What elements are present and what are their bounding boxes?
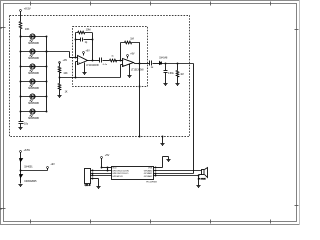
svg-text:+9V: +9V (130, 53, 135, 56)
capacitor C3 1u (149, 61, 151, 66)
frame tick top x=90 (90, 2, 92, 6)
svg-text:MRD500B: MRD500B (28, 88, 39, 90)
ground (cap 0.68u) (163, 84, 167, 86)
inner dashed box (amplifier block) (73, 27, 148, 87)
diode D9 arrow (20, 175, 23, 178)
frame tick top x=150 (150, 2, 152, 6)
link VDD to pin2 wire (107, 168, 109, 171)
resistor 1K bias (58, 84, 61, 90)
svg-text:PIC12F683: PIC12F683 (146, 182, 157, 184)
frame tick bottom x=210 (210, 220, 212, 224)
resistor 1M feedback (121, 41, 140, 44)
svg-text:+9V: +9V (50, 163, 55, 166)
power port +8.5V bottom (20, 151, 22, 153)
output down wire right (193, 64, 195, 174)
capacitor C2 0.47u (99, 58, 101, 63)
resistor 1M branch (177, 64, 179, 71)
down wire from output to bottom (139, 64, 141, 137)
frame tick right y=206 (295, 205, 299, 207)
feedback loop 2 (120, 43, 122, 61)
resistor R1 10K (19, 22, 22, 29)
op-amp1 V+ stub (83, 54, 85, 56)
svg-text:GP4/OSC2/CLKO: GP4/OSC2/CLKO (112, 173, 128, 175)
ground (ladder cap) (18, 128, 22, 130)
svg-text:MRD500B: MRD500B (28, 103, 39, 105)
wire minus input (121, 60, 123, 62)
svg-text:GP1/AN1: GP1/AN1 (144, 172, 153, 175)
photodiode D1 (21, 34, 46, 45)
op-amp1 V- stub to ground (84, 63, 86, 73)
resistor 10M (76, 31, 93, 34)
photodiode D6 (21, 109, 46, 120)
ground (op-amp2) (127, 76, 131, 78)
diode D7 1N4148 (160, 62, 162, 65)
svg-text:GP2/AN2: GP2/AN2 (144, 175, 153, 178)
svg-text:SP-0825: SP-0825 (198, 178, 207, 180)
photodiode D3 (21, 64, 46, 75)
svg-text:0.68u: 0.68u (168, 73, 174, 75)
svg-text:-: - (123, 58, 124, 62)
op-amp U1B (123, 59, 134, 67)
wire ladder bottom to cap (20, 112, 22, 122)
output wire stage1 (88, 60, 100, 62)
ground (op-amp1) (82, 73, 86, 75)
connector CN1 (85, 169, 91, 184)
svg-text:MRD500B: MRD500B (28, 43, 39, 45)
IC U2 PIC12F683 (112, 167, 154, 180)
frame tick bottom x=270 (270, 220, 272, 224)
frame tick top x=30 (30, 2, 32, 6)
photodiode D2 (21, 49, 46, 60)
svg-text:1M: 1M (180, 74, 183, 76)
svg-text:CN-8: CN-8 (85, 184, 91, 187)
cap 0.68u branch (165, 64, 167, 71)
ground (bias divider) (57, 96, 61, 98)
op-amp2 V- stub to ground (129, 64, 131, 76)
svg-text:1M: 1M (130, 38, 133, 41)
connector wires (91, 170, 112, 172)
svg-text:+8.5V: +8.5V (24, 7, 31, 11)
wire ground stub below dashed (162, 137, 164, 144)
ground (res 1M) (175, 84, 179, 86)
power port +5V (101, 157, 103, 159)
svg-text:10M: 10M (86, 29, 91, 32)
svg-text:10K: 10K (25, 27, 30, 31)
zone mark left bottom (0, 208, 1, 210)
frame tick left y=28 (2, 27, 6, 29)
frame tick bottom x=90 (90, 220, 92, 224)
svg-text:-: - (78, 56, 79, 60)
svg-text:GP0/AN0: GP0/AN0 (144, 169, 153, 172)
svg-text:GP3/MCLR: GP3/MCLR (112, 176, 123, 178)
svg-text:1N4148: 1N4148 (159, 58, 168, 60)
cap branch 1p (76, 39, 81, 41)
frame tick bottom x=30 (30, 220, 32, 224)
svg-text:VSS: VSS (148, 168, 153, 170)
bias rail wire (60, 77, 121, 79)
frame tick right y=28 (295, 29, 299, 31)
power port +8.5V top-left (20, 10, 22, 12)
ladder left rail (20, 37, 22, 112)
svg-text:MRD500B: MRD500B (28, 73, 39, 75)
svg-text:VDD: VDD (112, 168, 117, 170)
IC wire GP1 to filter (154, 173, 194, 175)
page edge border (0, 0, 300, 2)
branch to +9V port (21, 170, 48, 172)
ladder right rail (46, 37, 48, 112)
resistor 1k series (110, 59, 117, 62)
svg-text:+5V: +5V (105, 154, 110, 157)
svg-text:GP5/OSC1/CLKIN: GP5/OSC1/CLKIN (112, 170, 129, 172)
svg-text:1N4001: 1N4001 (24, 165, 33, 168)
svg-text:MRD500B: MRD500B (28, 58, 39, 60)
IC wire GP2 to speaker low (154, 175, 199, 177)
wire ladder tap to amp (47, 51, 70, 53)
feedback loop 1 (75, 33, 77, 58)
outer dashed box (sensor+amp section) (10, 16, 190, 137)
op-amp2 V+ stub (127, 57, 129, 59)
svg-text:LT1013CN8: LT1013CN8 (131, 69, 144, 71)
svg-text:LT1013CN8: LT1013CN8 (86, 65, 99, 67)
resistor 10K bias (58, 67, 61, 73)
zone mark left top (0, 27, 1, 29)
svg-text:10u: 10u (24, 123, 29, 126)
frame tick top x=270 (270, 2, 272, 6)
svg-text:+9V: +9V (85, 50, 90, 53)
svg-text:CR30GB05: CR30GB05 (24, 180, 37, 183)
frame tick top x=210 (210, 2, 212, 6)
wire (20, 29, 22, 37)
frame tick left y=206 (2, 208, 6, 210)
diode D8 arrow (20, 159, 23, 162)
svg-text:MRD500B: MRD500B (28, 118, 39, 120)
svg-text:+9V: +9V (63, 59, 68, 62)
op-amp U1A (78, 56, 88, 65)
svg-text:10K: 10K (63, 72, 68, 75)
svg-text:1K: 1K (65, 91, 68, 94)
svg-text:+8.5V: +8.5V (24, 149, 31, 152)
frame tick bottom x=150 (150, 220, 152, 224)
IC wire GP0 to speaker (154, 170, 202, 172)
capacitor C1 10u (19, 121, 24, 123)
power port +9V bias (59, 62, 61, 64)
photodiode D5 (21, 94, 46, 105)
photodiode D4 (21, 79, 46, 90)
speaker SP1 (202, 170, 205, 175)
output wire stage2 (134, 63, 135, 64)
IC right wires: VSS (154, 167, 163, 169)
